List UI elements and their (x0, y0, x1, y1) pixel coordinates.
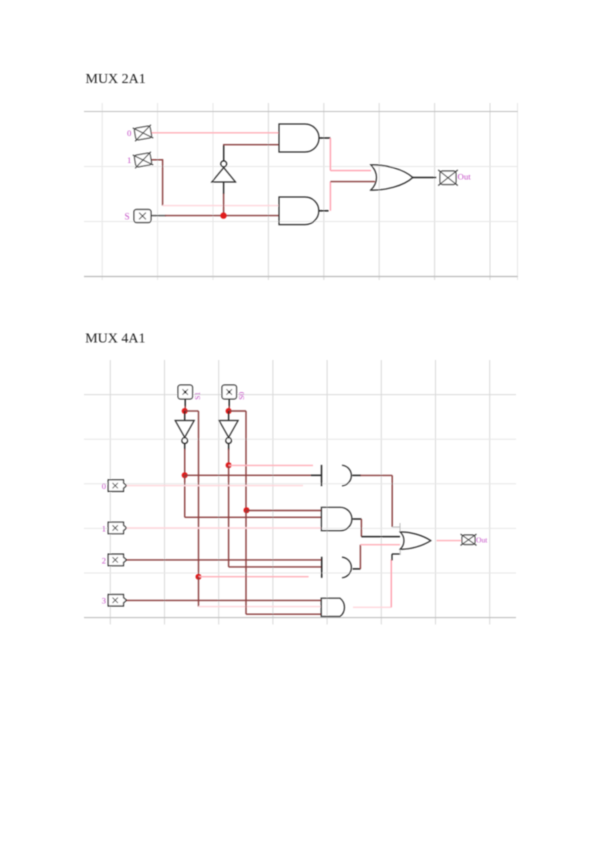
svg-text:1: 1 (127, 155, 131, 165)
svg-text:0: 0 (127, 128, 132, 138)
svg-text:1: 1 (102, 523, 106, 533)
svg-text:Out: Out (476, 536, 488, 545)
svg-text:MUX 2A1: MUX 2A1 (86, 72, 146, 87)
svg-text:0: 0 (102, 481, 106, 491)
svg-text:S1: S1 (193, 392, 202, 400)
svg-text:MUX 4A1: MUX 4A1 (85, 331, 145, 346)
svg-text:2: 2 (102, 555, 106, 565)
svg-text:3: 3 (102, 596, 106, 606)
svg-text:S: S (125, 212, 130, 222)
svg-text:Out: Out (458, 171, 472, 181)
svg-text:S0: S0 (237, 392, 246, 400)
